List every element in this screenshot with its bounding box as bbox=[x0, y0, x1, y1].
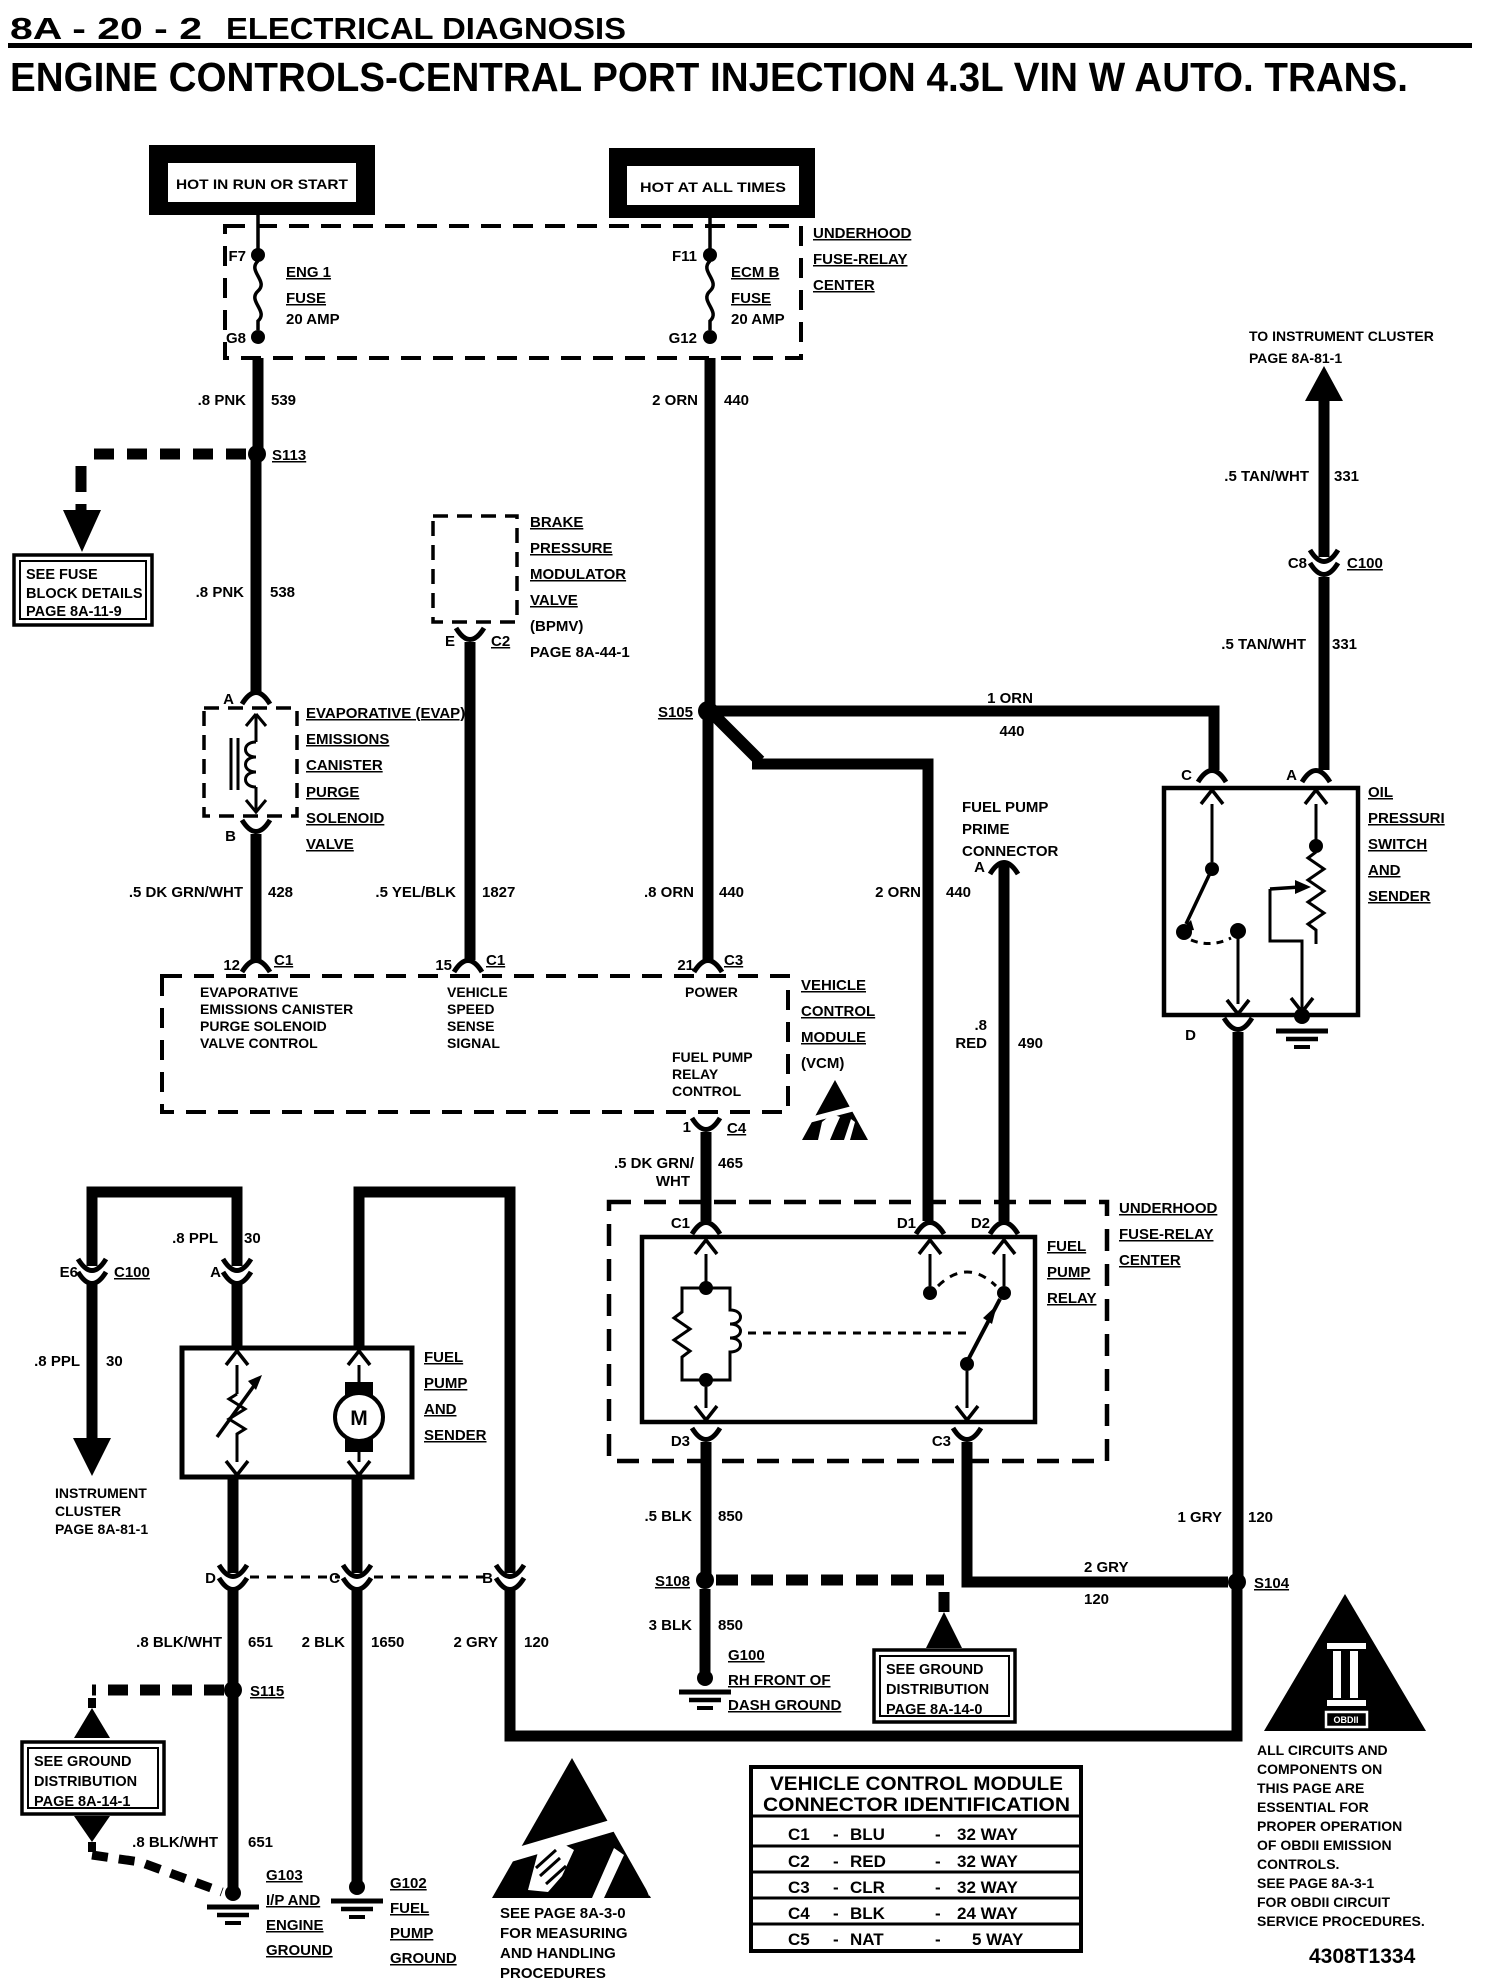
svg-text:CONTROL: CONTROL bbox=[801, 1003, 875, 1020]
svg-text:PROCEDURES: PROCEDURES bbox=[500, 1965, 606, 1982]
svg-text:SEE GROUND: SEE GROUND bbox=[34, 1754, 132, 1770]
svg-text:.8 PPL: .8 PPL bbox=[172, 1230, 218, 1247]
svg-text:-: - bbox=[833, 1930, 839, 1949]
svg-text:-: - bbox=[935, 1930, 941, 1949]
svg-text:FOR OBDII CIRCUIT: FOR OBDII CIRCUIT bbox=[1257, 1894, 1390, 1910]
svg-text:G12: G12 bbox=[669, 330, 697, 347]
splice S113 bbox=[248, 445, 266, 463]
wire .8 ORN 440 (S105 to VCM pin 21) bbox=[703, 711, 714, 960]
svg-text:FUEL: FUEL bbox=[390, 1900, 429, 1917]
svg-text:-: - bbox=[935, 1852, 941, 1871]
svg-text:RH FRONT OF: RH FRONT OF bbox=[728, 1672, 831, 1689]
svg-text:PROPER OPERATION: PROPER OPERATION bbox=[1257, 1818, 1402, 1834]
svg-text:4308T1334: 4308T1334 bbox=[1309, 1945, 1416, 1968]
wire .8 RED 490 (prime connector to relay D2) bbox=[999, 864, 1010, 1221]
svg-text:FUEL PUMP: FUEL PUMP bbox=[672, 1049, 753, 1065]
svg-text:FUEL: FUEL bbox=[424, 1349, 463, 1366]
svg-text:INSTRUMENT: INSTRUMENT bbox=[55, 1485, 147, 1501]
splice S108 bbox=[696, 1571, 714, 1589]
dashed wire S113 to fuse block details bbox=[81, 449, 246, 460]
svg-text:HOT IN RUN OR START: HOT IN RUN OR START bbox=[176, 176, 348, 192]
wire .5 BLK 850 (relay D3 to S108) bbox=[701, 1442, 712, 1577]
wire .8 PNK 538 (S113 to EVAP A) bbox=[251, 454, 262, 692]
wire .5 YEL/BLK 1827 bbox=[465, 642, 476, 960]
svg-text:2 BLK: 2 BLK bbox=[302, 1634, 346, 1651]
svg-text:SEE FUSE: SEE FUSE bbox=[26, 567, 98, 583]
wire .8 BLK/WHT 651 (D to S115) bbox=[228, 1590, 239, 1690]
svg-text:850: 850 bbox=[718, 1617, 743, 1634]
svg-text:EVAPORATIVE: EVAPORATIVE bbox=[200, 984, 298, 1000]
splice S115 bbox=[224, 1681, 242, 1699]
svg-text:-: - bbox=[833, 1878, 839, 1897]
dashed wire to G103 bbox=[88, 1842, 96, 1852]
svg-text:32 WAY: 32 WAY bbox=[957, 1852, 1018, 1871]
svg-text:A: A bbox=[210, 1264, 221, 1281]
off-page arrow to ground distribution 8A-14-1 (up) bbox=[74, 1708, 110, 1738]
svg-text:SWITCH: SWITCH bbox=[1368, 836, 1427, 853]
svg-text:20 AMP: 20 AMP bbox=[286, 311, 340, 328]
VCM vehicle control module dashed box bbox=[162, 976, 788, 1112]
svg-text:CONTROL: CONTROL bbox=[672, 1083, 742, 1099]
svg-text:ENG 1: ENG 1 bbox=[286, 264, 331, 281]
svg-text:MODULE: MODULE bbox=[801, 1029, 866, 1046]
svg-text:SOLENOID: SOLENOID bbox=[306, 810, 385, 827]
svg-text:HOT AT ALL TIMES: HOT AT ALL TIMES bbox=[640, 179, 786, 195]
svg-text:ENGINE CONTROLS-CENTRAL PORT I: ENGINE CONTROLS-CENTRAL PORT INJECTION 4… bbox=[10, 54, 1408, 100]
svg-text:15: 15 bbox=[435, 957, 452, 974]
svg-text:POWER: POWER bbox=[685, 984, 738, 1000]
svg-text:EMISSIONS CANISTER: EMISSIONS CANISTER bbox=[200, 1001, 353, 1017]
svg-text:440: 440 bbox=[946, 884, 971, 901]
solenoid L1 EVAP canister purge valve dashed box bbox=[204, 708, 297, 816]
underhood fuse-relay center (bottom) dashed box bbox=[609, 1202, 1107, 1461]
svg-text:D3: D3 bbox=[671, 1433, 690, 1450]
wire 2 ORN 440 (S105 to relay D1) bbox=[711, 712, 760, 761]
svg-text:OIL: OIL bbox=[1368, 784, 1393, 801]
svg-text:PRESSURE: PRESSURE bbox=[530, 540, 613, 557]
svg-text:2 ORN: 2 ORN bbox=[875, 884, 921, 901]
svg-text:G100: G100 bbox=[728, 1647, 765, 1664]
svg-text:8A - 20 - 2: 8A - 20 - 2 bbox=[10, 11, 202, 46]
svg-text:GROUND: GROUND bbox=[266, 1942, 333, 1959]
svg-text:.5 DK GRN/: .5 DK GRN/ bbox=[614, 1155, 695, 1172]
svg-text:C4: C4 bbox=[727, 1120, 747, 1137]
svg-text:20 AMP: 20 AMP bbox=[731, 311, 785, 328]
svg-text:331: 331 bbox=[1332, 636, 1357, 653]
svg-text:COMPONENTS ON: COMPONENTS ON bbox=[1257, 1761, 1382, 1777]
svg-text:120: 120 bbox=[1248, 1509, 1273, 1526]
svg-text:D1: D1 bbox=[897, 1215, 916, 1232]
svg-text:ELECTRICAL DIAGNOSIS: ELECTRICAL DIAGNOSIS bbox=[226, 11, 626, 46]
svg-text:.8 BLK/WHT: .8 BLK/WHT bbox=[136, 1634, 222, 1651]
svg-text:C3: C3 bbox=[932, 1433, 951, 1450]
reference box SEE GROUND DISTRIBUTION PAGE 8A-14-1 bbox=[22, 1742, 164, 1814]
svg-text:.5 TAN/WHT: .5 TAN/WHT bbox=[1224, 468, 1309, 485]
svg-text:AND HANDLING: AND HANDLING bbox=[500, 1945, 616, 1962]
svg-text:UNDERHOOD: UNDERHOOD bbox=[1119, 1200, 1218, 1217]
svg-text:-: - bbox=[833, 1904, 839, 1923]
fuel pump relay box bbox=[642, 1237, 1035, 1422]
svg-text:.8: .8 bbox=[974, 1017, 987, 1034]
relay switch dashed arc bbox=[938, 1272, 996, 1286]
svg-text:1 GRY: 1 GRY bbox=[1178, 1509, 1222, 1526]
dashed wire S108 to ground distribution bbox=[716, 1575, 944, 1586]
svg-text:FUSE-RELAY: FUSE-RELAY bbox=[813, 251, 907, 268]
svg-text:RELAY: RELAY bbox=[1047, 1290, 1096, 1307]
fuse ECM B 20 AMP bbox=[703, 248, 717, 262]
off-page arrow to instrument cluster (left) bbox=[73, 1438, 111, 1476]
svg-text:PAGE 8A-81-1: PAGE 8A-81-1 bbox=[55, 1521, 148, 1537]
wire .8 PPL 30 (fuel sender A to C100 E6) bbox=[92, 1192, 237, 1266]
svg-text:440: 440 bbox=[719, 884, 744, 901]
svg-text:NAT: NAT bbox=[850, 1930, 884, 1949]
svg-text:120: 120 bbox=[524, 1634, 549, 1651]
svg-text:C1: C1 bbox=[788, 1825, 810, 1844]
svg-text:OF OBDII EMISSION: OF OBDII EMISSION bbox=[1257, 1837, 1392, 1853]
svg-text:SENSE: SENSE bbox=[447, 1018, 494, 1034]
svg-text:DASH GROUND: DASH GROUND bbox=[728, 1697, 842, 1714]
wire .5 TAN/WHT 331 (upper) bbox=[1319, 399, 1330, 557]
svg-text:2 GRY: 2 GRY bbox=[1084, 1559, 1128, 1576]
ground at oil pressure sender bbox=[1291, 998, 1313, 1012]
svg-text:EMISSIONS: EMISSIONS bbox=[306, 731, 389, 748]
wire 3 BLK 850 (S108 to G100) bbox=[700, 1589, 711, 1672]
svg-text:FUSE: FUSE bbox=[731, 290, 771, 307]
wire fuel pump C lead bbox=[352, 1477, 363, 1573]
svg-text:AND: AND bbox=[424, 1401, 457, 1418]
off-page arrow to ground distribution 8A-14-0 bbox=[926, 1612, 962, 1648]
svg-text:1650: 1650 bbox=[371, 1634, 404, 1651]
solenoid coil and core bbox=[246, 714, 266, 742]
svg-text:RED: RED bbox=[850, 1852, 886, 1871]
svg-text:MODULATOR: MODULATOR bbox=[530, 566, 626, 583]
reference box SEE FUSE BLOCK DETAILS PAGE 8A-11-9 bbox=[14, 555, 152, 625]
ESD handling symbol bbox=[492, 1758, 651, 1898]
svg-text:PRESSURI: PRESSURI bbox=[1368, 810, 1445, 827]
svg-text:PAGE 8A-81-1: PAGE 8A-81-1 bbox=[1249, 350, 1342, 366]
svg-text:C100: C100 bbox=[1347, 555, 1383, 572]
svg-text:CLR: CLR bbox=[850, 1878, 885, 1897]
fuse ENG 1 20 AMP bbox=[251, 248, 265, 262]
header rule bbox=[8, 43, 1472, 48]
svg-text:VALVE CONTROL: VALVE CONTROL bbox=[200, 1035, 318, 1051]
oil pressure switch contacts bbox=[1201, 790, 1223, 804]
svg-text:.5 BLK: .5 BLK bbox=[644, 1508, 692, 1525]
feed box HOT AT ALL TIMES bbox=[609, 148, 815, 218]
svg-text:RED: RED bbox=[955, 1035, 987, 1052]
svg-text:PUMP: PUMP bbox=[424, 1375, 467, 1392]
svg-text:.5 DK GRN/WHT: .5 DK GRN/WHT bbox=[129, 884, 243, 901]
svg-text:CONTROLS.: CONTROLS. bbox=[1257, 1856, 1339, 1872]
wire .5 DK GRN/WHT 428 bbox=[251, 834, 262, 960]
svg-text:FUSE: FUSE bbox=[286, 290, 326, 307]
svg-text:.8 BLK/WHT: .8 BLK/WHT bbox=[132, 1834, 218, 1851]
svg-text:M: M bbox=[350, 1407, 368, 1430]
svg-text:SPEED: SPEED bbox=[447, 1001, 494, 1017]
svg-text:C3: C3 bbox=[724, 952, 743, 969]
svg-text:CONNECTOR IDENTIFICATION: CONNECTOR IDENTIFICATION bbox=[763, 1795, 1070, 1816]
oil pressure sender resistor bbox=[1305, 790, 1327, 804]
svg-text:2 GRY: 2 GRY bbox=[454, 1634, 498, 1651]
svg-text:CLUSTER: CLUSTER bbox=[55, 1503, 121, 1519]
svg-text:C4: C4 bbox=[788, 1904, 810, 1923]
svg-text:S115: S115 bbox=[250, 1683, 284, 1700]
svg-text:PAGE 8A-11-9: PAGE 8A-11-9 bbox=[26, 604, 122, 620]
wire .5 TAN/WHT 331 (lower) bbox=[1319, 577, 1330, 770]
svg-text:-: - bbox=[833, 1852, 839, 1871]
wire 2 ORN 440 (G12 to S105) bbox=[705, 358, 716, 704]
svg-text:A: A bbox=[1286, 767, 1297, 784]
svg-text:465: 465 bbox=[718, 1155, 743, 1172]
svg-text:32 WAY: 32 WAY bbox=[957, 1825, 1018, 1844]
svg-text:SENDER: SENDER bbox=[424, 1427, 487, 1444]
svg-text:D: D bbox=[205, 1570, 216, 1587]
svg-text:VEHICLE: VEHICLE bbox=[447, 984, 508, 1000]
svg-text:539: 539 bbox=[271, 392, 296, 409]
svg-text:850: 850 bbox=[718, 1508, 743, 1525]
wire 2 GRY 120 (S104 to fuel pump B) bbox=[510, 1582, 1237, 1736]
svg-text:S108: S108 bbox=[655, 1573, 690, 1590]
svg-text:(VCM): (VCM) bbox=[801, 1055, 844, 1072]
svg-text:3 BLK: 3 BLK bbox=[649, 1617, 693, 1634]
svg-text:440: 440 bbox=[724, 392, 749, 409]
svg-text:32 WAY: 32 WAY bbox=[957, 1878, 1018, 1897]
svg-text:C: C bbox=[1181, 767, 1192, 784]
svg-text:CENTER: CENTER bbox=[813, 277, 875, 294]
svg-text:-: - bbox=[935, 1904, 941, 1923]
svg-text:CENTER: CENTER bbox=[1119, 1252, 1181, 1269]
svg-text:S113: S113 bbox=[272, 447, 306, 464]
svg-text:PAGE 8A-14-1: PAGE 8A-14-1 bbox=[34, 1794, 130, 1810]
wire F7 stub bbox=[256, 215, 260, 252]
svg-text:21: 21 bbox=[677, 957, 694, 974]
svg-text:651: 651 bbox=[248, 1634, 273, 1651]
svg-text:1 ORN: 1 ORN bbox=[987, 690, 1033, 707]
svg-text:440: 440 bbox=[999, 723, 1024, 740]
svg-text:SENDER: SENDER bbox=[1368, 888, 1431, 905]
svg-text:ECM B: ECM B bbox=[731, 264, 780, 281]
svg-text:2 ORN: 2 ORN bbox=[652, 392, 698, 409]
svg-text:PRIME: PRIME bbox=[962, 821, 1010, 838]
svg-text:PURGE: PURGE bbox=[306, 784, 359, 801]
svg-text:BLU: BLU bbox=[850, 1825, 885, 1844]
svg-text:1: 1 bbox=[683, 1119, 691, 1136]
svg-text:SEE PAGE 8A-3-0: SEE PAGE 8A-3-0 bbox=[500, 1905, 626, 1922]
relay switch blade bbox=[968, 1299, 1000, 1360]
svg-text:RELAY: RELAY bbox=[672, 1066, 719, 1082]
svg-text:EVAPORATIVE (EVAP): EVAPORATIVE (EVAP) bbox=[306, 705, 465, 722]
ground G102 bbox=[349, 1879, 365, 1895]
svg-text:E: E bbox=[445, 633, 455, 650]
svg-text:120: 120 bbox=[1084, 1591, 1109, 1608]
wire 1 ORN 440 (S105 to oil pressure switch C) bbox=[715, 711, 1214, 770]
ground G100 bbox=[697, 1670, 713, 1686]
svg-text:A: A bbox=[223, 691, 234, 708]
svg-text:BLOCK DETAILS: BLOCK DETAILS bbox=[26, 586, 143, 602]
svg-text:CANISTER: CANISTER bbox=[306, 757, 383, 774]
svg-text:VEHICLE CONTROL MODULE: VEHICLE CONTROL MODULE bbox=[770, 1774, 1063, 1795]
fuel pump motor M bbox=[348, 1351, 370, 1365]
svg-text:F7: F7 bbox=[228, 248, 246, 265]
svg-text:1827: 1827 bbox=[482, 884, 515, 901]
connector pin D of oil pressure switch bbox=[1227, 1000, 1249, 1014]
svg-text:C2: C2 bbox=[491, 633, 510, 650]
svg-text:-: - bbox=[935, 1878, 941, 1897]
svg-text:FOR MEASURING: FOR MEASURING bbox=[500, 1925, 628, 1942]
svg-text:SERVICE PROCEDURES.: SERVICE PROCEDURES. bbox=[1257, 1913, 1425, 1929]
svg-text:GROUND: GROUND bbox=[390, 1950, 457, 1967]
ground G103 bbox=[225, 1885, 241, 1901]
ESD symbol at VCM bbox=[802, 1080, 868, 1140]
svg-text:D: D bbox=[1185, 1027, 1196, 1044]
svg-text:E6: E6 bbox=[60, 1264, 78, 1281]
svg-text:G8: G8 bbox=[226, 330, 246, 347]
svg-text:30: 30 bbox=[106, 1353, 123, 1370]
svg-text:24 WAY: 24 WAY bbox=[957, 1904, 1018, 1923]
svg-text:I/P AND: I/P AND bbox=[266, 1892, 320, 1909]
fuel level sender variable resistor bbox=[226, 1351, 248, 1365]
wire fuel pump motor feed (top run) bbox=[359, 1192, 510, 1573]
svg-text:.8 PNK: .8 PNK bbox=[196, 584, 245, 601]
svg-text:TO INSTRUMENT CLUSTER: TO INSTRUMENT CLUSTER bbox=[1249, 328, 1434, 344]
oil pressure switch and sender box bbox=[1164, 788, 1358, 1015]
svg-text:.5 TAN/WHT: .5 TAN/WHT bbox=[1221, 636, 1306, 653]
svg-text:490: 490 bbox=[1018, 1035, 1043, 1052]
OBDII symbol triangle bbox=[1264, 1594, 1426, 1731]
svg-text:PAGE 8A-44-1: PAGE 8A-44-1 bbox=[530, 644, 630, 661]
svg-text:DISTRIBUTION: DISTRIBUTION bbox=[34, 1774, 137, 1790]
svg-text:PUMP: PUMP bbox=[390, 1925, 433, 1942]
underhood fuse-relay center (top) dashed box bbox=[225, 226, 801, 358]
wire F11 stub bbox=[708, 218, 712, 252]
svg-text:.8 ORN: .8 ORN bbox=[644, 884, 694, 901]
svg-text:PURGE SOLENOID: PURGE SOLENOID bbox=[200, 1018, 327, 1034]
svg-text:FUSE-RELAY: FUSE-RELAY bbox=[1119, 1226, 1213, 1243]
relay coil and resistor bbox=[695, 1240, 717, 1254]
svg-text:VEHICLE: VEHICLE bbox=[801, 977, 866, 994]
wire .5 DK GRN/WHT 465 bbox=[701, 1132, 712, 1221]
svg-text:C1: C1 bbox=[274, 952, 293, 969]
svg-text:C1: C1 bbox=[486, 952, 505, 969]
wire .8 PPL 30 (C100 to instrument cluster) bbox=[87, 1284, 98, 1440]
svg-text:S104: S104 bbox=[1254, 1575, 1290, 1592]
wire fuel sender D lead bbox=[228, 1477, 239, 1573]
wire fuel sender A lead bbox=[232, 1284, 243, 1346]
wire 2 BLK 1650 (C to G102) bbox=[352, 1590, 363, 1882]
svg-text:ESSENTIAL FOR: ESSENTIAL FOR bbox=[1257, 1799, 1369, 1815]
svg-text:PUMP: PUMP bbox=[1047, 1264, 1090, 1281]
svg-text:-: - bbox=[833, 1825, 839, 1844]
svg-text:(BPMV): (BPMV) bbox=[530, 618, 583, 635]
BPMV brake pressure modulator valve dashed box bbox=[433, 516, 517, 622]
svg-text:G103: G103 bbox=[266, 1867, 303, 1884]
off-page arrow to instrument cluster bbox=[1305, 366, 1343, 401]
svg-text:S105: S105 bbox=[658, 704, 693, 721]
svg-text:BLK: BLK bbox=[850, 1904, 886, 1923]
svg-text:428: 428 bbox=[268, 884, 293, 901]
fuel pump and sender box bbox=[182, 1348, 412, 1477]
wire 1 GRY 120 (oil switch D to S104) bbox=[1233, 1032, 1244, 1577]
svg-text:-: - bbox=[935, 1825, 941, 1844]
svg-text:ALL CIRCUITS AND: ALL CIRCUITS AND bbox=[1257, 1742, 1388, 1758]
off-page arrow from ground distribution (down) bbox=[74, 1816, 110, 1842]
oil pressure sender wiper arrow bbox=[1270, 887, 1300, 889]
svg-text:C3: C3 bbox=[788, 1878, 810, 1897]
svg-text:UNDERHOOD: UNDERHOOD bbox=[813, 225, 912, 242]
svg-text:C2: C2 bbox=[788, 1852, 810, 1871]
svg-text:FUEL PUMP: FUEL PUMP bbox=[962, 799, 1048, 816]
wire .8 BLK/WHT 651 (S115 to G103) bbox=[228, 1690, 239, 1888]
svg-text:SEE GROUND: SEE GROUND bbox=[886, 1662, 984, 1678]
svg-text:C5: C5 bbox=[788, 1930, 810, 1949]
svg-text:C1: C1 bbox=[671, 1215, 690, 1232]
relay coil to switch dashed link bbox=[748, 1332, 970, 1335]
svg-text:.8 PNK: .8 PNK bbox=[198, 392, 247, 409]
svg-text:A: A bbox=[974, 859, 985, 876]
wire 2 GRY 120 (relay C3 to S104) bbox=[967, 1442, 1228, 1582]
svg-text:CONNECTOR: CONNECTOR bbox=[962, 843, 1059, 860]
svg-text:ENGINE: ENGINE bbox=[266, 1917, 324, 1934]
svg-text:PAGE 8A-14-0: PAGE 8A-14-0 bbox=[886, 1702, 982, 1718]
svg-text:D2: D2 bbox=[971, 1215, 990, 1232]
svg-text:30: 30 bbox=[244, 1230, 261, 1247]
connector body dashed link D-C-B bbox=[250, 1576, 340, 1579]
feed box HOT IN RUN OR START bbox=[149, 145, 375, 215]
svg-text:B: B bbox=[225, 828, 236, 845]
svg-text:THIS PAGE ARE: THIS PAGE ARE bbox=[1257, 1780, 1364, 1796]
reference box SEE GROUND DISTRIBUTION PAGE 8A-14-0 bbox=[874, 1650, 1015, 1722]
splice S105 bbox=[698, 701, 718, 721]
svg-text:BRAKE: BRAKE bbox=[530, 514, 583, 531]
svg-text:OBDII: OBDII bbox=[1333, 1715, 1358, 1725]
svg-text:SEE PAGE 8A-3-1: SEE PAGE 8A-3-1 bbox=[1257, 1875, 1374, 1891]
wire .8 PNK 539 (G8 to S113) bbox=[253, 358, 264, 454]
svg-text:VALVE: VALVE bbox=[530, 592, 578, 609]
svg-text:.8 PPL: .8 PPL bbox=[34, 1353, 80, 1370]
svg-text:SIGNAL: SIGNAL bbox=[447, 1035, 500, 1051]
svg-text:5 WAY: 5 WAY bbox=[972, 1930, 1024, 1949]
svg-text:VALVE: VALVE bbox=[306, 836, 354, 853]
svg-text:C100: C100 bbox=[114, 1264, 150, 1281]
svg-text:12: 12 bbox=[223, 957, 240, 974]
svg-text:C8: C8 bbox=[1288, 555, 1307, 572]
svg-text:WHT: WHT bbox=[656, 1173, 690, 1190]
svg-text:F11: F11 bbox=[672, 248, 697, 265]
svg-text:651: 651 bbox=[248, 1834, 273, 1851]
svg-text:.5 YEL/BLK: .5 YEL/BLK bbox=[375, 884, 456, 901]
svg-text:331: 331 bbox=[1334, 468, 1359, 485]
svg-text:DISTRIBUTION: DISTRIBUTION bbox=[886, 1682, 989, 1698]
svg-text:538: 538 bbox=[270, 584, 295, 601]
dashed wire S115 to ground distribution bbox=[92, 1685, 224, 1696]
VCM connector identification table bbox=[751, 1767, 1081, 1951]
svg-text:FUEL: FUEL bbox=[1047, 1238, 1086, 1255]
splice S104 bbox=[1228, 1573, 1246, 1591]
svg-text:G102: G102 bbox=[390, 1875, 427, 1892]
svg-text:AND: AND bbox=[1368, 862, 1401, 879]
off-page arrow to fuse block details bbox=[63, 510, 101, 552]
